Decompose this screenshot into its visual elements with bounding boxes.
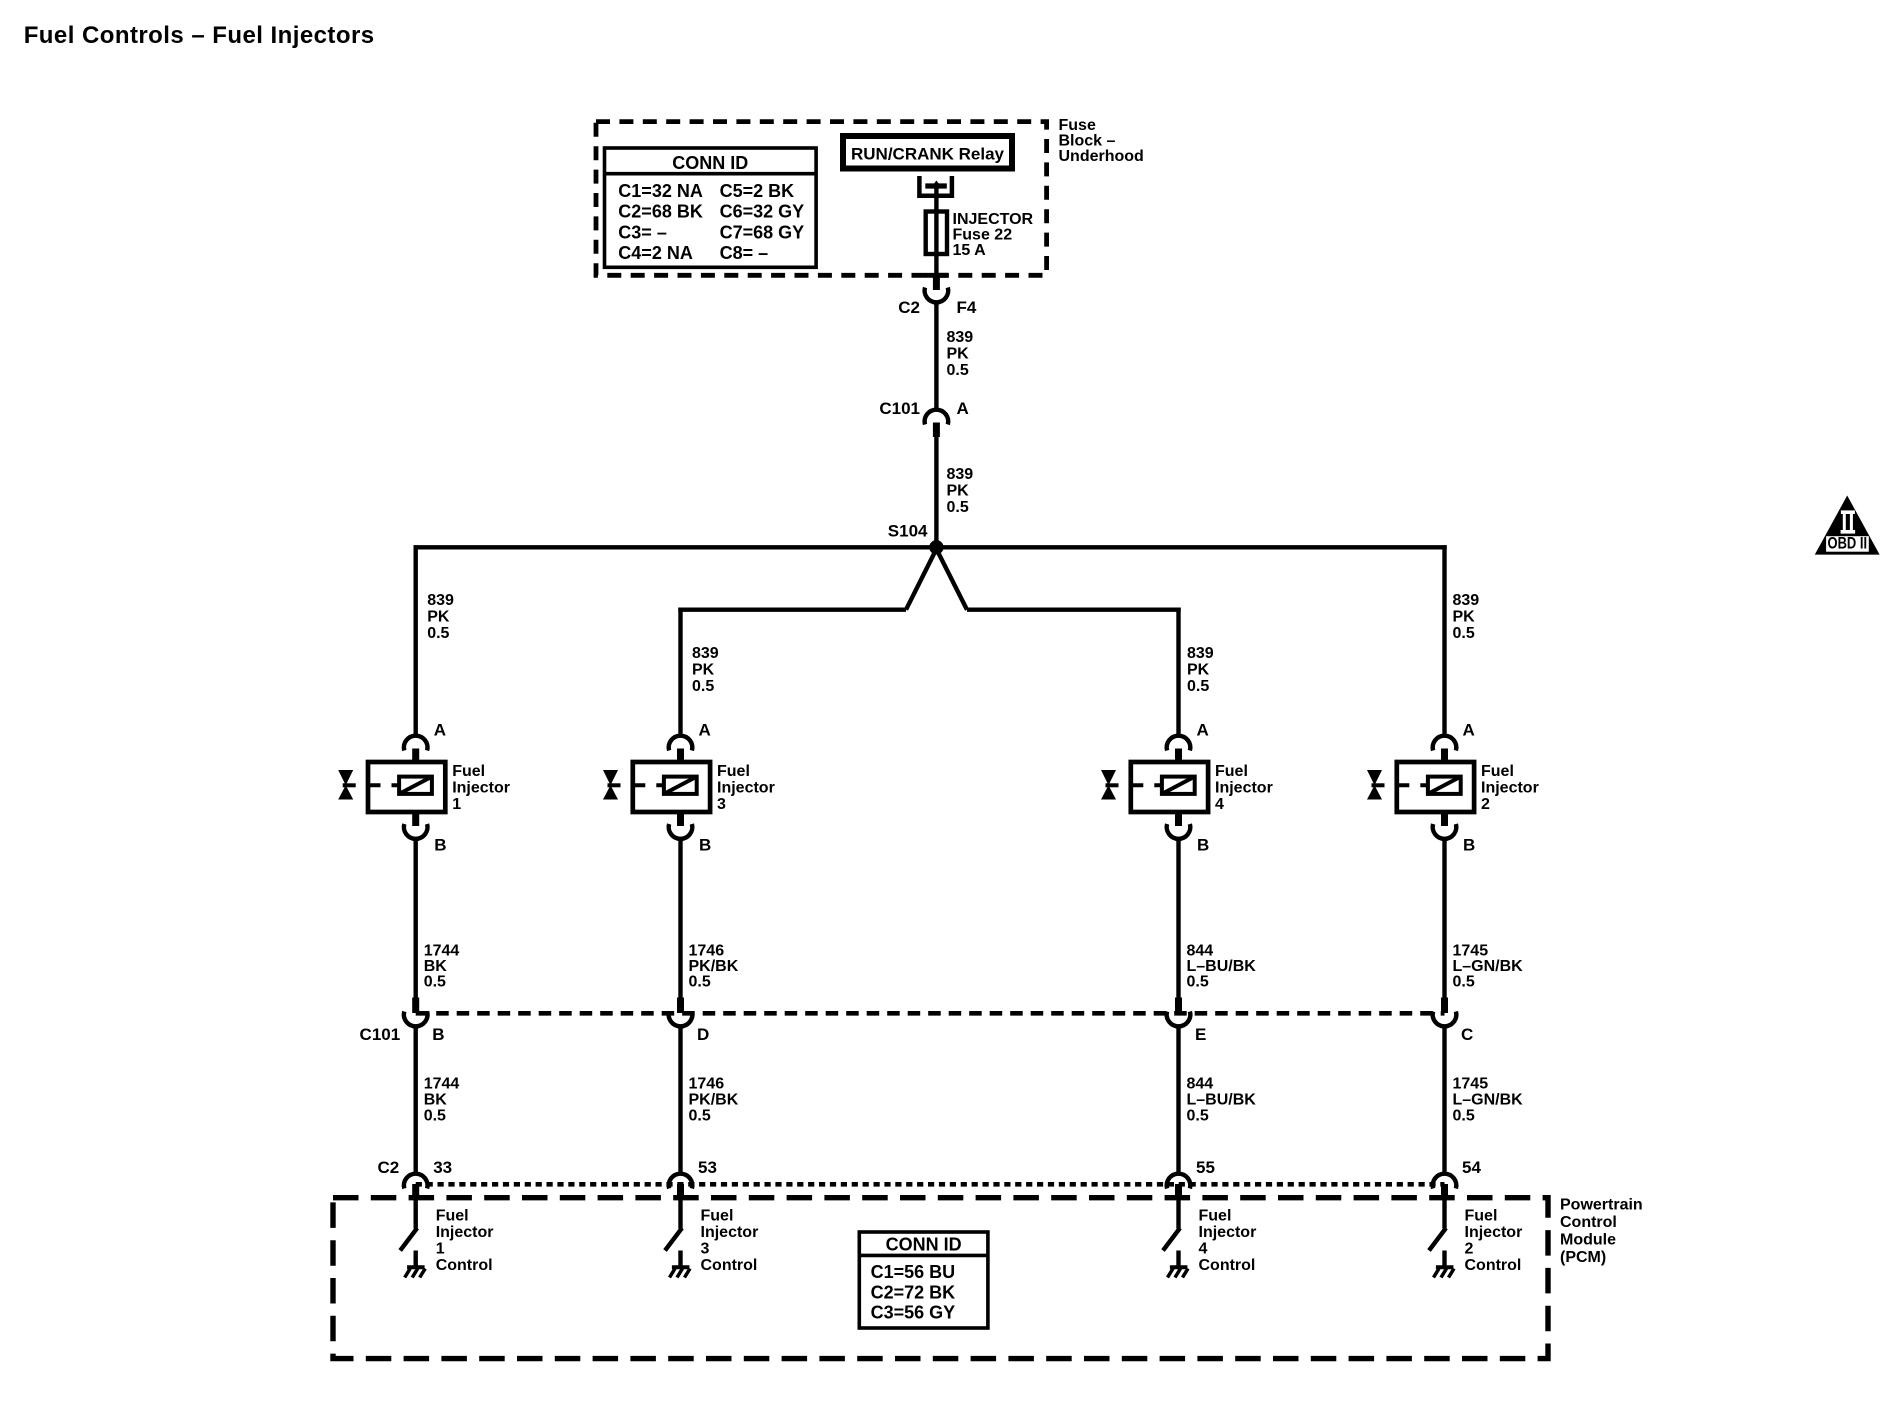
connector C101 pin B (360, 998, 445, 1045)
connector pin B (fuel injector 1) (404, 812, 447, 855)
svg-text:0.5: 0.5 (424, 974, 446, 991)
PCM driver switch fuel injector 2 control (1429, 1199, 1446, 1267)
fuel injector 4 (1101, 762, 1273, 813)
ground (fuel injector 4 control) (1168, 1267, 1189, 1277)
svg-text:C2: C2 (898, 298, 920, 317)
svg-text:839: 839 (427, 592, 454, 609)
svg-text:PK/BK: PK/BK (689, 1092, 739, 1109)
C2 dotted connector line (416, 1182, 1445, 1187)
CONN ID table (fuse block) (605, 148, 817, 267)
svg-text:(PCM): (PCM) (1560, 1249, 1606, 1266)
svg-text:Control: Control (1465, 1257, 1522, 1274)
wire 839 PK 0.5 (C2 to C101) (936, 302, 973, 410)
relay K RUN/CRANK Relay label box (843, 136, 1012, 169)
svg-text:0.5: 0.5 (947, 499, 969, 516)
svg-text:C4=2 NA: C4=2 NA (618, 243, 693, 263)
PCM dashed box (333, 1198, 1548, 1359)
svg-text:C8= –: C8= – (720, 243, 769, 263)
connector C2 pin 55 (PCM) (1167, 1158, 1215, 1199)
svg-text:1746: 1746 (689, 1076, 725, 1093)
connector pin A (fuel injector 2) (1433, 721, 1475, 764)
PCM driver switch fuel injector 4 control (1163, 1199, 1180, 1267)
connector C2 pin F4 (898, 276, 977, 317)
svg-text:OBD II: OBD II (1828, 535, 1868, 553)
svg-text:839: 839 (1187, 645, 1214, 662)
svg-text:0.5: 0.5 (424, 1108, 446, 1125)
svg-text:15 A: 15 A (953, 242, 987, 259)
svg-text:0.5: 0.5 (1187, 678, 1209, 695)
svg-text:Injector: Injector (1481, 780, 1539, 797)
svg-text:B: B (432, 1025, 444, 1044)
svg-text:C2=68 BK: C2=68 BK (618, 202, 703, 222)
svg-text:Fuel Controls – Fuel Injectors: Fuel Controls – Fuel Injectors (24, 22, 375, 49)
svg-text:0.5: 0.5 (1187, 974, 1209, 991)
svg-text:L–BU/BK: L–BU/BK (1187, 1092, 1257, 1109)
wire 839 PK 0.5 branch 4 (1179, 608, 1214, 736)
label fuel injector 3 control (701, 1208, 759, 1275)
svg-text:0.5: 0.5 (1453, 625, 1475, 642)
svg-text:C2: C2 (377, 1158, 399, 1177)
svg-text:CONN ID: CONN ID (672, 153, 748, 173)
connector C2 pin 54 (PCM) (1433, 1158, 1482, 1199)
bus tent diagonal right (936, 549, 967, 610)
svg-text:Fuel: Fuel (1465, 1208, 1498, 1225)
svg-text:Fuel: Fuel (717, 763, 750, 780)
svg-text:3: 3 (701, 1241, 710, 1258)
svg-text:4: 4 (1199, 1241, 1208, 1258)
svg-text:Fuel: Fuel (1481, 763, 1514, 780)
wire 839 PK 0.5 (C101 to S104) (936, 437, 973, 549)
svg-text:839: 839 (1453, 592, 1480, 609)
svg-text:C3=56 GY: C3=56 GY (871, 1303, 956, 1323)
svg-text:Injector: Injector (1465, 1224, 1523, 1241)
svg-text:Fuel: Fuel (701, 1208, 734, 1225)
svg-text:0.5: 0.5 (1453, 974, 1475, 991)
bus wire horizontal main (414, 545, 1447, 549)
svg-text:C3= –: C3= – (618, 222, 667, 242)
svg-text:0.5: 0.5 (427, 625, 449, 642)
connector C2 pin 53 (PCM) (669, 1158, 717, 1199)
connector pin A (fuel injector 3) (669, 721, 711, 764)
label fuel injector 4 control (1199, 1208, 1257, 1275)
fuse block underhood dashed box (596, 122, 1047, 276)
bus tent diagonal left (906, 549, 936, 610)
wire fuse to connector C2 (934, 254, 938, 276)
label fuel injector 2 control (1465, 1208, 1523, 1275)
svg-text:0.5: 0.5 (689, 1108, 711, 1125)
svg-text:A: A (699, 721, 711, 740)
connector pin A (fuel injector 4) (1167, 721, 1209, 764)
fuel injector 1 (338, 762, 510, 813)
PCM label Powertrain Control Module (1560, 1197, 1643, 1267)
svg-text:2: 2 (1481, 796, 1490, 813)
svg-text:C6=32 GY: C6=32 GY (720, 202, 805, 222)
wire 1745 L&#8211;GN/BK 0.5 (C101 to PCM) (1445, 1026, 1524, 1173)
wire 1744 BK 0.5 (C101 to PCM) (416, 1026, 460, 1173)
svg-text:C2=72 BK: C2=72 BK (871, 1282, 956, 1302)
svg-text:L–BU/BK: L–BU/BK (1187, 958, 1257, 975)
bus tent horizontal left (678, 608, 906, 612)
svg-text:PK: PK (1187, 662, 1210, 679)
svg-text:1744: 1744 (424, 943, 460, 960)
ground (fuel injector 2 control) (1434, 1267, 1455, 1277)
ground (fuel injector 3 control) (670, 1267, 691, 1277)
wire 839 PK 0.5 branch 2 (1445, 545, 1480, 736)
svg-text:PK: PK (947, 346, 970, 363)
svg-text:Injector: Injector (1215, 780, 1273, 797)
svg-text:Injector: Injector (717, 780, 775, 797)
svg-text:C1=56 BU: C1=56 BU (871, 1262, 956, 1282)
OBD II symbol (1815, 496, 1880, 555)
splice S104 (888, 522, 944, 555)
svg-text:PK: PK (947, 483, 970, 500)
connector C2 pin 33 (PCM) (377, 1158, 452, 1199)
svg-text:Control: Control (436, 1257, 493, 1274)
wire relay to fuse (934, 186, 938, 213)
svg-text:BK: BK (424, 1092, 448, 1109)
svg-text:Fuse: Fuse (1059, 117, 1096, 134)
svg-text:B: B (699, 836, 711, 855)
svg-text:1746: 1746 (689, 943, 725, 960)
svg-text:1745: 1745 (1453, 943, 1489, 960)
fuse F22 INJECTOR Fuse 22 15A (926, 211, 1034, 259)
svg-text:0.5: 0.5 (692, 678, 714, 695)
label fuel injector 1 control (436, 1208, 494, 1275)
svg-text:B: B (434, 836, 446, 855)
relay contact symbol (919, 176, 952, 196)
svg-text:PK/BK: PK/BK (689, 958, 739, 975)
wire 839 PK 0.5 branch 1 (416, 545, 454, 736)
svg-text:A: A (434, 721, 446, 740)
svg-text:0.5: 0.5 (1187, 1108, 1209, 1125)
connector pin B (fuel injector 3) (669, 812, 712, 855)
svg-text:B: B (1197, 836, 1209, 855)
svg-text:Injector: Injector (436, 1224, 494, 1241)
svg-text:844: 844 (1187, 1076, 1214, 1093)
svg-text:E: E (1195, 1025, 1206, 1044)
svg-text:4: 4 (1215, 796, 1224, 813)
svg-text:839: 839 (947, 329, 974, 346)
svg-text:Control: Control (1199, 1257, 1256, 1274)
svg-text:3: 3 (717, 796, 726, 813)
svg-text:Control: Control (701, 1257, 758, 1274)
svg-text:Fuse 22: Fuse 22 (953, 227, 1013, 244)
wire 1745 L&#8211;GN/BK 0.5 (injector 2 to C101) (1445, 839, 1524, 998)
border dash at wire crossing (925, 273, 948, 278)
svg-text:0.5: 0.5 (1453, 1108, 1475, 1125)
svg-text:INJECTOR: INJECTOR (953, 211, 1034, 228)
svg-text:L–GN/BK: L–GN/BK (1453, 958, 1524, 975)
svg-text:S104: S104 (888, 522, 928, 541)
connector pin B (fuel injector 2) (1433, 812, 1476, 855)
svg-text:1: 1 (452, 796, 461, 813)
wire 1746 PK/BK 0.5 (injector 3 to C101) (681, 839, 739, 998)
svg-text:D: D (697, 1025, 709, 1044)
svg-text:2: 2 (1465, 1241, 1474, 1258)
C101 dashed connector line (416, 1011, 1445, 1016)
svg-text:Control: Control (1560, 1214, 1617, 1231)
svg-text:Block –: Block – (1059, 133, 1116, 150)
svg-text:A: A (957, 399, 969, 418)
ground (fuel injector 1 control) (405, 1267, 426, 1277)
svg-text:Fuel: Fuel (452, 763, 485, 780)
connector C101 pin E (1167, 998, 1207, 1045)
svg-text:BK: BK (424, 958, 448, 975)
wire 844 L&#8211;BU/BK 0.5 (C101 to PCM) (1179, 1026, 1257, 1173)
svg-text:1745: 1745 (1453, 1076, 1489, 1093)
svg-text:B: B (1463, 836, 1475, 855)
wire 1744 BK 0.5 (injector 1 to C101) (416, 839, 460, 998)
wire 839 PK 0.5 branch 3 (681, 608, 719, 736)
connector C101 pin C (1433, 998, 1474, 1045)
svg-text:CONN ID: CONN ID (886, 1235, 962, 1255)
svg-text:C7=68 GY: C7=68 GY (720, 222, 805, 242)
svg-text:C1=32 NA: C1=32 NA (618, 181, 703, 201)
svg-text:RUN/CRANK Relay: RUN/CRANK Relay (851, 145, 1005, 164)
svg-text:PK: PK (427, 609, 450, 626)
fuel injector 3 (603, 762, 775, 813)
svg-text:PK: PK (692, 662, 715, 679)
fuse block label (1059, 117, 1144, 165)
svg-text:54: 54 (1462, 1158, 1481, 1177)
svg-text:0.5: 0.5 (689, 974, 711, 991)
svg-text:1744: 1744 (424, 1076, 460, 1093)
PCM driver switch fuel injector 3 control (665, 1199, 682, 1267)
svg-text:Module: Module (1560, 1232, 1616, 1249)
svg-text:C101: C101 (879, 399, 920, 418)
svg-text:Fuel: Fuel (1215, 763, 1248, 780)
svg-text:Underhood: Underhood (1059, 148, 1144, 165)
svg-text:Powertrain: Powertrain (1560, 1197, 1643, 1214)
connector pin B (fuel injector 4) (1167, 812, 1210, 855)
CONN ID table (PCM) (859, 1232, 988, 1328)
svg-text:55: 55 (1196, 1158, 1215, 1177)
svg-text:33: 33 (433, 1158, 452, 1177)
svg-text:Injector: Injector (452, 780, 510, 797)
svg-text:L–GN/BK: L–GN/BK (1453, 1092, 1524, 1109)
svg-text:A: A (1197, 721, 1209, 740)
svg-text:53: 53 (698, 1158, 717, 1177)
svg-text:C: C (1461, 1025, 1473, 1044)
svg-text:0.5: 0.5 (947, 362, 969, 379)
connector C101 pin A (879, 399, 968, 437)
svg-text:F4: F4 (957, 298, 977, 317)
wire 1746 PK/BK 0.5 (C101 to PCM) (681, 1026, 739, 1173)
svg-text:A: A (1463, 721, 1475, 740)
wire 844 L&#8211;BU/BK 0.5 (injector 4 to C101) (1179, 839, 1257, 998)
fuel injector 2 (1367, 762, 1539, 813)
svg-text:Fuel: Fuel (436, 1208, 469, 1225)
svg-text:C5=2 BK: C5=2 BK (720, 181, 795, 201)
svg-text:839: 839 (947, 466, 974, 483)
svg-text:Fuel: Fuel (1199, 1208, 1232, 1225)
PCM driver switch fuel injector 1 control (400, 1199, 417, 1267)
svg-text:Injector: Injector (701, 1224, 759, 1241)
svg-text:839: 839 (692, 645, 719, 662)
svg-text:PK: PK (1453, 609, 1476, 626)
connector pin A (fuel injector 1) (404, 721, 446, 764)
connector C101 pin D (669, 998, 710, 1045)
svg-text:844: 844 (1187, 943, 1214, 960)
svg-text:C101: C101 (360, 1025, 401, 1044)
svg-text:1: 1 (436, 1241, 445, 1258)
svg-text:Injector: Injector (1199, 1224, 1257, 1241)
bus tent horizontal right (967, 608, 1181, 612)
